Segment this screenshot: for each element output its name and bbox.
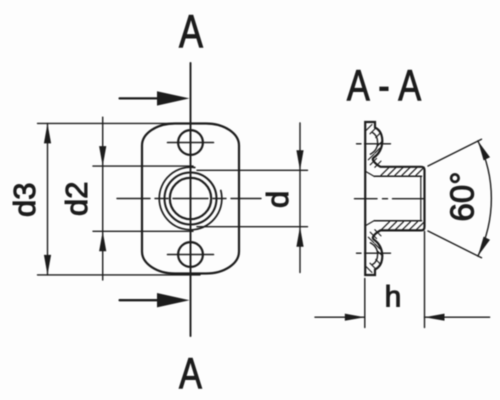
svg-text:d2: d2 xyxy=(59,182,94,216)
wire bore top line xyxy=(374,175,421,177)
svg-text:60°: 60° xyxy=(444,172,481,222)
node countersink circle xyxy=(165,173,217,225)
wire angle arc xyxy=(478,141,491,256)
wire bore bottom line xyxy=(374,220,421,222)
node thread major circle (3/4 arc, gap top-right) xyxy=(159,167,222,230)
svg-text:A: A xyxy=(179,6,203,57)
wire thread chamfer at end xyxy=(420,176,422,220)
node dimension d xyxy=(197,123,308,273)
node bore circle xyxy=(170,178,211,219)
wire horizontal centerline xyxy=(117,198,261,200)
svg-text:A-A: A-A xyxy=(347,62,430,111)
wire bottom hole axis tick xyxy=(168,254,214,256)
wire top hole axis tick (section) xyxy=(357,144,391,253)
wire section horizontal centerline xyxy=(355,198,425,200)
node front-view xyxy=(117,63,261,336)
svg-text:A: A xyxy=(179,349,202,398)
wire top hole axis tick xyxy=(168,142,214,144)
node hatching top wall xyxy=(381,167,424,175)
wire bottom cutting arrow xyxy=(120,299,162,301)
node hatching bottom wall xyxy=(381,222,424,230)
body flange outline (obround with elliptical corners) xyxy=(142,124,239,274)
node section-view xyxy=(355,122,425,275)
node cutting arrows xyxy=(120,91,190,307)
wire dimple inner curve bottom xyxy=(370,243,377,265)
node dimension d2 xyxy=(93,117,193,280)
node bottom prong hole xyxy=(178,242,203,267)
wire top cutting arrow xyxy=(120,97,162,99)
node dimension h xyxy=(315,232,490,328)
node hatching top dimple xyxy=(366,125,382,168)
svg-text:d3: d3 xyxy=(7,183,42,217)
svg-text:d: d xyxy=(260,191,295,208)
node dimension d3 xyxy=(38,123,201,275)
svg-text:h: h xyxy=(385,281,402,314)
wire countersink cone bottom xyxy=(366,221,375,226)
body section outline xyxy=(365,122,424,275)
wire upper leg xyxy=(428,139,482,166)
wire countersink cone top xyxy=(366,172,375,177)
wire section-cutting-plane line A-A (vertical centerline) xyxy=(190,63,192,336)
node dimension 60deg xyxy=(428,139,491,258)
wire dimple inner curve top xyxy=(370,133,377,155)
node top prong hole xyxy=(178,130,203,155)
wire lower leg xyxy=(428,231,482,258)
node hatching bottom dimple xyxy=(366,230,382,273)
